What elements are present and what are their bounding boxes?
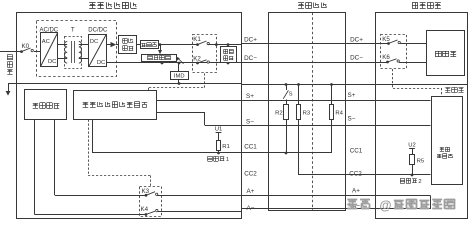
svg-text:S−: S− [246, 118, 254, 125]
svg-text:R5: R5 [417, 159, 425, 165]
svg-text:1: 1 [226, 157, 229, 163]
svg-text:IMD: IMD [174, 74, 185, 80]
svg-text:R2: R2 [275, 111, 283, 117]
svg-text:DC+: DC+ [350, 37, 363, 44]
svg-text:A+: A+ [247, 188, 255, 195]
svg-text:DC: DC [48, 59, 56, 65]
svg-text:S+: S+ [246, 93, 254, 100]
svg-text:CC1: CC1 [244, 144, 257, 151]
svg-text:@: @ [379, 199, 391, 213]
svg-text:CC2: CC2 [349, 170, 362, 177]
svg-text:DC−: DC− [350, 54, 363, 61]
svg-text:K5: K5 [382, 36, 390, 43]
svg-text:R3: R3 [303, 111, 311, 117]
svg-text:R4: R4 [335, 111, 343, 117]
svg-text:U2: U2 [408, 143, 416, 149]
svg-text:DC−: DC− [244, 55, 257, 62]
svg-text:A−: A− [247, 205, 255, 212]
svg-text:S−: S− [348, 115, 356, 122]
svg-text:DC+: DC+ [244, 37, 257, 44]
svg-text:AC: AC [42, 39, 50, 45]
svg-text:S: S [289, 91, 293, 97]
svg-text:DC: DC [90, 39, 98, 45]
svg-text:T: T [71, 26, 75, 33]
svg-text:K4: K4 [141, 206, 149, 213]
svg-text:K2: K2 [193, 55, 201, 62]
svg-text:DC: DC [97, 60, 105, 66]
svg-text:U1: U1 [215, 127, 223, 133]
svg-text:K1: K1 [193, 36, 201, 43]
svg-text:K6: K6 [382, 54, 390, 61]
svg-text:CC1: CC1 [350, 147, 363, 154]
svg-text:K3: K3 [142, 188, 150, 195]
svg-text:DC/DC: DC/DC [88, 27, 108, 33]
svg-text:A+: A+ [352, 188, 360, 195]
svg-text:S+: S+ [348, 92, 356, 99]
svg-text:2: 2 [418, 179, 421, 185]
svg-text:CC2: CC2 [244, 171, 257, 178]
svg-text:R1: R1 [222, 144, 230, 150]
